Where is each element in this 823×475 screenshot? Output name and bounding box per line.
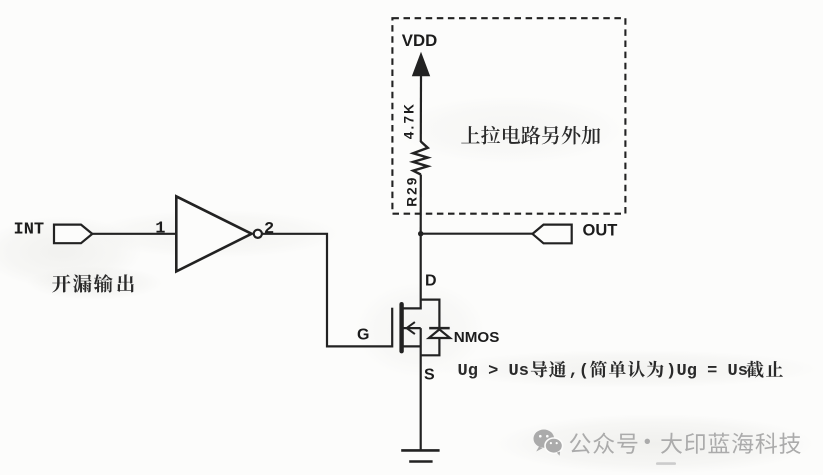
wire inverter output to gate	[262, 234, 392, 347]
svg-text:): )	[666, 362, 676, 381]
svg-text:2: 2	[264, 220, 274, 239]
port INT	[54, 225, 92, 244]
body diode branch top	[421, 300, 440, 328]
transistor Q1 source lead	[404, 345, 421, 347]
svg-text:VDD: VDD	[402, 31, 437, 50]
inverter bubble pin 2	[254, 230, 262, 238]
body diode cathode bar	[429, 327, 450, 330]
watermark middle dot	[645, 439, 650, 444]
transistor Q1 body lead	[404, 327, 421, 329]
resistor R29 zigzag	[413, 142, 428, 175]
body diode branch bottom	[421, 338, 440, 355]
inverter U1	[176, 196, 251, 271]
watermark text 公众号大印蓝海科技	[570, 433, 801, 454]
svg-text:NMOS: NMOS	[454, 329, 500, 346]
wire node to OUT	[421, 233, 533, 235]
svg-text:G: G	[357, 327, 369, 344]
node junction dot	[418, 231, 423, 236]
annotation CJK part 3	[746, 361, 783, 378]
watermark small dash artifact	[656, 462, 676, 465]
svg-text:D: D	[425, 273, 437, 290]
svg-text:,(: ,(	[569, 362, 589, 381]
svg-text:OUT: OUT	[583, 222, 618, 240]
svg-text:Ug > Us: Ug > Us	[458, 362, 529, 381]
svg-text:INT: INT	[14, 220, 45, 239]
svg-text:Ug = Us: Ug = Us	[677, 362, 748, 381]
wire VDD arrow to resistor	[420, 75, 422, 143]
watermark wechat icon	[534, 430, 563, 456]
label 上拉电路另外加 (pull-up added externally)	[461, 126, 600, 145]
power VDD arrow	[412, 52, 430, 76]
svg-text:4.7K: 4.7K	[402, 102, 417, 139]
transistor Q1 drain lead	[404, 234, 421, 309]
wire resistor to node	[420, 175, 422, 234]
wire source to ground	[420, 328, 422, 450]
dashed box pull-up region	[392, 18, 625, 214]
port OUT	[533, 225, 572, 244]
svg-text:1: 1	[155, 219, 165, 238]
transistor Q1 gate plate	[391, 308, 393, 348]
ground	[401, 450, 439, 461]
wire INT to inverter	[92, 233, 176, 235]
label 开漏输出 (open-drain output)	[52, 274, 134, 293]
svg-text:S: S	[424, 367, 435, 384]
body diode triangle	[429, 329, 450, 338]
svg-text:R29: R29	[405, 175, 420, 206]
annotation CJK part 2	[590, 361, 663, 378]
transistor Q1 channel bar	[399, 304, 403, 351]
annotation Ug/Us formula CJK part 1	[531, 361, 566, 378]
transistor Q1 body arrow	[407, 322, 415, 334]
